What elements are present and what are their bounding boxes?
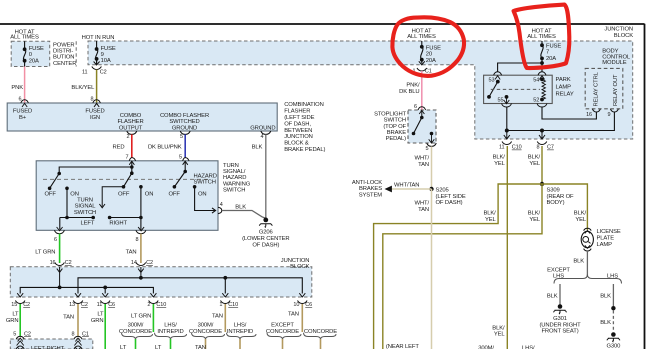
switch linkage dashed line bbox=[43, 178, 210, 180]
svg-text:BLK: BLK bbox=[600, 294, 611, 300]
svg-text:LT GRN: LT GRN bbox=[35, 249, 55, 255]
middle OFF to down arrow bbox=[99, 187, 123, 208]
park lamp relay box bbox=[484, 75, 553, 103]
fuse 20 exit arrow bbox=[419, 61, 425, 65]
turn signal switch label bbox=[74, 198, 96, 216]
hot at all times label (left) bbox=[10, 29, 39, 40]
svg-text:SWITCHED: SWITCHED bbox=[169, 119, 199, 125]
svg-text:GROUND: GROUND bbox=[172, 125, 197, 131]
svg-text:PEDAL): PEDAL) bbox=[386, 136, 407, 142]
svg-text:ON: ON bbox=[198, 191, 207, 197]
svg-text:20A: 20A bbox=[426, 58, 436, 64]
wire S309 right branch to license lamp bbox=[542, 184, 587, 230]
ground G300 bbox=[607, 332, 620, 342]
svg-text:FUSED: FUSED bbox=[85, 109, 104, 115]
svg-text:BLK/: BLK/ bbox=[528, 155, 541, 161]
svg-text:S309: S309 bbox=[547, 187, 560, 193]
turn signal / hazard switch box bbox=[36, 161, 218, 231]
svg-text:(LOWER CENTER: (LOWER CENTER bbox=[242, 236, 289, 242]
svg-text:YEL: YEL bbox=[529, 161, 541, 167]
svg-text:6: 6 bbox=[414, 104, 417, 110]
svg-text:14: 14 bbox=[131, 260, 137, 266]
svg-text:54: 54 bbox=[533, 77, 539, 83]
wire WHT/TAN stoplight to S205 bbox=[431, 146, 433, 189]
BCM pin 16 bump bbox=[592, 109, 600, 112]
svg-text:YEL: YEL bbox=[485, 217, 497, 223]
svg-text:BLK: BLK bbox=[573, 258, 584, 264]
combination flasher location label bbox=[284, 102, 325, 153]
stoplight contact blade bbox=[421, 111, 423, 118]
svg-text:13: 13 bbox=[69, 302, 75, 308]
svg-text:TAN: TAN bbox=[212, 313, 223, 319]
svg-text:BLK/: BLK/ bbox=[492, 325, 505, 331]
svg-text:RELAY CTRL: RELAY CTRL bbox=[594, 71, 600, 106]
svg-text:FUSED: FUSED bbox=[13, 109, 32, 115]
svg-text:SYSTEM: SYSTEM bbox=[359, 192, 383, 198]
svg-text:JUNCTION: JUNCTION bbox=[281, 258, 310, 264]
bus B tan circuit bbox=[78, 278, 302, 294]
svg-text:BLOCK: BLOCK bbox=[614, 33, 633, 39]
svg-text:LT GRN: LT GRN bbox=[131, 313, 151, 319]
hazard ON to pin 4 bbox=[195, 187, 216, 213]
relay linkage dashed bbox=[491, 88, 540, 90]
svg-text:G300: G300 bbox=[606, 343, 621, 349]
svg-text:OF DASH,: OF DASH, bbox=[284, 121, 311, 127]
svg-text:CONCORDE: CONCORDE bbox=[304, 329, 337, 335]
svg-text:C2: C2 bbox=[65, 260, 72, 266]
LEFT output bus bbox=[60, 188, 93, 229]
svg-text:7: 7 bbox=[126, 155, 129, 161]
front lamp box bottom left bbox=[10, 339, 93, 349]
svg-text:CONCORDE: CONCORDE bbox=[119, 329, 152, 335]
switch pin 8 exit bump bottom bbox=[136, 227, 146, 234]
svg-text:GROUND: GROUND bbox=[250, 125, 275, 131]
turn signal hazard warning switch label bbox=[223, 163, 251, 194]
connector 1 C1 bbox=[417, 68, 427, 71]
svg-text:BLOCK &: BLOCK & bbox=[284, 141, 309, 147]
svg-text:SIGNAL: SIGNAL bbox=[75, 204, 97, 210]
svg-text:SWITCH: SWITCH bbox=[384, 118, 406, 124]
svg-text:ON: ON bbox=[145, 191, 154, 197]
svg-text:8: 8 bbox=[136, 237, 139, 243]
svg-text:BRAKE PEDAL): BRAKE PEDAL) bbox=[284, 147, 325, 153]
PDC label right dashed separator bbox=[75, 41, 77, 66]
svg-text:YEL: YEL bbox=[529, 217, 541, 223]
red annotation box right bbox=[514, 5, 570, 68]
svg-text:S205: S205 bbox=[436, 187, 449, 193]
svg-text:IGN: IGN bbox=[90, 115, 100, 121]
svg-text:16: 16 bbox=[586, 112, 592, 118]
junction block (L-shaped dashed blue region) bbox=[88, 41, 633, 139]
node 55/9 junction bbox=[505, 129, 509, 133]
svg-text:53: 53 bbox=[489, 77, 495, 83]
svg-text:POWER: POWER bbox=[53, 42, 74, 48]
stoplight switch label bbox=[374, 111, 406, 142]
svg-text:55: 55 bbox=[498, 98, 504, 104]
svg-text:CENTER: CENTER bbox=[53, 61, 76, 67]
wire relay 52 to BCM 16 bbox=[542, 107, 596, 119]
relay pin 53 bump bbox=[494, 72, 502, 76]
wire BLK to G300 bbox=[612, 284, 614, 306]
svg-text:BUTION: BUTION bbox=[53, 55, 74, 61]
svg-text:300M/: 300M/ bbox=[128, 323, 144, 329]
svg-text:BLK/: BLK/ bbox=[574, 210, 587, 216]
svg-text:YEL: YEL bbox=[494, 332, 506, 338]
brace continuation wires bbox=[135, 339, 137, 349]
svg-text:OUTPUT: OUTPUT bbox=[119, 125, 143, 131]
svg-text:300M/: 300M/ bbox=[198, 323, 214, 329]
splice S205 bbox=[429, 187, 433, 191]
svg-text:FLASHER: FLASHER bbox=[117, 119, 143, 125]
svg-text:PLATE: PLATE bbox=[597, 236, 615, 242]
svg-text:11: 11 bbox=[499, 145, 505, 151]
hot at all times label (right) bbox=[527, 28, 556, 39]
ground G301 bbox=[554, 304, 567, 314]
svg-text:C6: C6 bbox=[305, 302, 312, 308]
svg-text:LHS/: LHS/ bbox=[522, 346, 535, 349]
svg-text:ANTI-LOCK: ANTI-LOCK bbox=[352, 180, 382, 186]
svg-text:LHS: LHS bbox=[607, 274, 618, 280]
svg-text:TAN: TAN bbox=[288, 312, 299, 318]
wire exits to C10/C7 bbox=[504, 131, 510, 140]
svg-text:LEFT: LEFT bbox=[81, 221, 95, 227]
svg-text:(REAR OF: (REAR OF bbox=[547, 194, 575, 200]
svg-text:LHS: LHS bbox=[553, 274, 564, 280]
BCM pin 9 bump bbox=[610, 109, 618, 112]
svg-text:C2: C2 bbox=[146, 260, 153, 266]
svg-text:STOPLIGHT: STOPLIGHT bbox=[374, 111, 406, 117]
stoplight pin 6 bump bbox=[418, 107, 426, 110]
wire LT GRN switch 6 to JB 16 C2 bbox=[59, 234, 61, 263]
svg-text:C6: C6 bbox=[108, 302, 115, 308]
svg-text:5: 5 bbox=[13, 331, 16, 337]
power distribution center box bbox=[11, 41, 50, 66]
svg-text:PNK: PNK bbox=[11, 85, 23, 91]
switch pin 6 exit bump bottom bbox=[54, 230, 64, 233]
svg-text:15: 15 bbox=[11, 302, 17, 308]
svg-text:BLK: BLK bbox=[235, 204, 246, 210]
svg-text:LICENSE: LICENSE bbox=[597, 229, 621, 235]
connector 8 C7 bbox=[537, 142, 547, 145]
svg-text:TAN: TAN bbox=[195, 345, 206, 349]
svg-text:HAZARD: HAZARD bbox=[223, 175, 246, 181]
svg-text:RED: RED bbox=[113, 144, 125, 150]
svg-text:BLOCK: BLOCK bbox=[290, 264, 309, 270]
left pole blade to OFF bbox=[50, 174, 60, 189]
svg-text:YEL: YEL bbox=[575, 217, 587, 223]
relay pin 52 exit bump bbox=[537, 104, 547, 108]
svg-text:G206: G206 bbox=[259, 230, 273, 236]
svg-text:(NEAR LEFT: (NEAR LEFT bbox=[386, 344, 419, 349]
svg-text:7: 7 bbox=[546, 50, 549, 56]
svg-text:4: 4 bbox=[220, 202, 223, 208]
wire TAN 13 C2 to right lamp bbox=[77, 304, 79, 336]
svg-text:DISTRI-: DISTRI- bbox=[53, 49, 73, 55]
svg-text:300M/: 300M/ bbox=[478, 346, 494, 349]
red annotation circle middle bbox=[392, 17, 464, 76]
svg-text:MODULE: MODULE bbox=[602, 60, 627, 66]
wire LT GRN 2 C10 to model split bbox=[152, 304, 154, 332]
svg-text:DK BLU/PNK: DK BLU/PNK bbox=[148, 144, 182, 150]
svg-text:10A: 10A bbox=[101, 58, 111, 64]
svg-text:FRONT SEAT): FRONT SEAT) bbox=[541, 329, 578, 335]
svg-text:OF DASH): OF DASH) bbox=[436, 200, 463, 206]
svg-text:JUNCTION: JUNCTION bbox=[284, 134, 313, 140]
hot at all times label (middle) bbox=[407, 28, 436, 39]
svg-text:RIGHT: RIGHT bbox=[109, 221, 127, 227]
svg-text:LT: LT bbox=[12, 312, 19, 318]
svg-text:C2: C2 bbox=[23, 302, 30, 308]
svg-text:GRN: GRN bbox=[91, 318, 104, 324]
svg-text:DK BLU: DK BLU bbox=[399, 89, 419, 95]
svg-text:PNK/: PNK/ bbox=[406, 83, 420, 89]
wire relay 55 down to node bbox=[506, 107, 508, 131]
splice S309 bbox=[540, 182, 544, 186]
hazard pole blade bbox=[184, 161, 186, 172]
node pin7 branch bbox=[131, 161, 133, 173]
relay coil 54-52 bbox=[540, 78, 544, 82]
page frame top line bbox=[0, 23, 645, 25]
wire BLK to G301 bbox=[559, 284, 561, 305]
svg-text:20A: 20A bbox=[546, 56, 556, 62]
fuse 7 20A (junction block right) bbox=[541, 41, 543, 63]
relay contact 53 to lower-left bbox=[496, 80, 500, 84]
svg-text:LT: LT bbox=[120, 345, 127, 349]
svg-text:LT: LT bbox=[155, 345, 162, 349]
park lamp relay label bbox=[556, 77, 574, 97]
svg-text:LHS/: LHS/ bbox=[234, 323, 247, 329]
fuse 9 10A (junction block) bbox=[95, 41, 97, 64]
svg-text:(UNDER RIGHT: (UNDER RIGHT bbox=[539, 322, 581, 328]
wire LT GRN 11 C6 down bbox=[104, 304, 106, 349]
hazard ON contact bbox=[193, 185, 197, 189]
svg-text:ALL TIMES: ALL TIMES bbox=[10, 34, 39, 40]
node fuse7 junction bbox=[540, 61, 544, 65]
svg-text:CONCORDE: CONCORDE bbox=[266, 329, 299, 335]
wire BLK flasher 4 to G206 bbox=[265, 134, 267, 218]
svg-text:OFF: OFF bbox=[169, 191, 181, 197]
wire TAN 10 C6 to model split bbox=[301, 304, 303, 332]
svg-text:52: 52 bbox=[533, 98, 539, 104]
svg-text:TAN: TAN bbox=[418, 207, 429, 213]
wire TAN 1 C10 to model split bbox=[224, 304, 226, 332]
svg-text:TAN: TAN bbox=[126, 249, 137, 255]
svg-text:BLK/: BLK/ bbox=[483, 210, 496, 216]
wire RED flasher 2 to switch 7 bbox=[131, 134, 133, 157]
RIGHT output bus bbox=[110, 188, 141, 229]
svg-text:TURN: TURN bbox=[77, 198, 93, 204]
svg-text:LAMP: LAMP bbox=[556, 84, 572, 90]
svg-text:11: 11 bbox=[97, 302, 103, 308]
svg-text:20A: 20A bbox=[29, 58, 39, 64]
wire BLK/YEL from 11 C10 straight down bbox=[506, 146, 508, 349]
wire pin7 to left pole bbox=[59, 167, 132, 174]
wire BLK/YEL from 11 C2 to flasher pin 8 bbox=[96, 70, 98, 104]
svg-text:BRAKES: BRAKES bbox=[359, 186, 382, 192]
connector 5 C2 bbox=[13, 331, 31, 337]
svg-text:TAN: TAN bbox=[418, 162, 429, 168]
flasher pin 2 bump bbox=[127, 131, 137, 134]
svg-text:1: 1 bbox=[219, 302, 222, 308]
relay pin 55 exit bump bbox=[502, 104, 512, 108]
connector 14 C2 bbox=[136, 263, 146, 266]
stoplight switch column: wire PNK/DK BLU from 1 C1 bbox=[421, 71, 423, 110]
svg-text:INTREPID: INTREPID bbox=[157, 329, 183, 335]
connector 11 C2 bbox=[92, 67, 102, 70]
svg-text:SIGNAL/: SIGNAL/ bbox=[223, 169, 246, 175]
connector 8 C1 bbox=[72, 331, 89, 337]
svg-text:5: 5 bbox=[426, 146, 429, 152]
wire BLK hazard 4 to G206 bbox=[222, 211, 266, 219]
wire TAN switch 8 to JB 14 C2 bbox=[140, 234, 142, 263]
svg-text:(LEFT SIDE: (LEFT SIDE bbox=[436, 194, 466, 200]
svg-text:C7: C7 bbox=[547, 145, 554, 151]
junction block label bbox=[604, 27, 633, 39]
svg-text:C1: C1 bbox=[82, 331, 89, 337]
connector 16 C2 bbox=[55, 263, 65, 266]
svg-text:YEL: YEL bbox=[494, 161, 506, 167]
svg-text:OF DASH): OF DASH) bbox=[252, 243, 279, 249]
svg-text:WHT/TAN: WHT/TAN bbox=[394, 183, 419, 189]
wire DK BLU/PNK flasher 5 to switch 5 bbox=[184, 134, 186, 157]
middle pole blade to OFF bbox=[124, 173, 132, 187]
svg-text:BLK: BLK bbox=[600, 320, 611, 326]
svg-text:11: 11 bbox=[82, 70, 88, 76]
switch pin 7 bump bbox=[129, 158, 135, 161]
anti-lock brakes system label bbox=[352, 180, 382, 198]
svg-text:2: 2 bbox=[147, 302, 150, 308]
svg-text:BETWEEN: BETWEEN bbox=[284, 128, 312, 134]
stoplight pin 5 contact bbox=[430, 132, 434, 136]
svg-text:ALL TIMES: ALL TIMES bbox=[527, 34, 556, 40]
combination flasher box bbox=[7, 103, 277, 131]
model labels under 2 C10 bbox=[119, 323, 184, 335]
svg-text:WARNING: WARNING bbox=[223, 181, 251, 187]
svg-text:(LEFT SIDE: (LEFT SIDE bbox=[284, 115, 314, 121]
svg-text:HOT IN RUN: HOT IN RUN bbox=[82, 35, 115, 41]
wire fuse7 to relay pins 53/54 bbox=[498, 63, 542, 72]
switch pin 4 bump right edge bbox=[218, 207, 222, 213]
stoplight switch box bbox=[408, 110, 436, 143]
svg-text:LAMP: LAMP bbox=[597, 242, 613, 248]
left pole ON contact bbox=[65, 187, 69, 191]
svg-text:8: 8 bbox=[72, 331, 75, 337]
flasher pin 6 bump bbox=[21, 100, 29, 103]
svg-text:HAZARD: HAZARD bbox=[194, 173, 217, 179]
flasher internal labels bbox=[13, 109, 209, 132]
relay pin 55 contact arrow bbox=[505, 95, 509, 99]
svg-text:TURN: TURN bbox=[223, 163, 239, 169]
wire BLK/YEL from 8 C7 to S309 bbox=[541, 146, 543, 184]
exit connectors row bbox=[15, 301, 307, 304]
svg-text:LHS/: LHS/ bbox=[164, 323, 177, 329]
svg-text:JUNCTION: JUNCTION bbox=[604, 27, 633, 33]
ground G206 bbox=[263, 218, 268, 223]
connector 11 C10 bbox=[502, 142, 512, 145]
svg-text:WHT/: WHT/ bbox=[415, 156, 430, 162]
braces under 2 C10 bbox=[122, 333, 153, 340]
wire BCM 9 to node bbox=[542, 112, 614, 131]
flasher pin 8 bump bbox=[93, 100, 101, 107]
svg-text:FLASHER: FLASHER bbox=[284, 109, 310, 115]
junction block lower box bbox=[10, 267, 312, 297]
svg-text:BRAKE: BRAKE bbox=[387, 130, 406, 136]
wire license lamp to ground split bbox=[586, 251, 588, 277]
svg-text:8: 8 bbox=[537, 145, 540, 151]
svg-text:SWITCH: SWITCH bbox=[194, 180, 216, 186]
svg-text:SWITCH: SWITCH bbox=[223, 188, 245, 194]
svg-text:SWITCH: SWITCH bbox=[74, 210, 96, 216]
svg-text:B+: B+ bbox=[19, 115, 27, 121]
svg-text:GRN: GRN bbox=[6, 318, 19, 324]
svg-text:5: 5 bbox=[179, 155, 182, 161]
svg-text:TAN: TAN bbox=[63, 315, 74, 321]
svg-text:C10: C10 bbox=[156, 302, 166, 308]
model split brace EXCEPT LHS / LHS bbox=[554, 275, 622, 284]
svg-text:BLK: BLK bbox=[547, 294, 558, 300]
wire WHT/TAN S205 down bbox=[431, 189, 433, 349]
fuse 0 20A (PDC) bbox=[23, 41, 25, 66]
svg-text:WHT/: WHT/ bbox=[415, 200, 430, 206]
svg-text:LT: LT bbox=[97, 312, 104, 318]
wire LT GRN 15 C2 to left lamp bbox=[19, 304, 21, 336]
power distribution center label bbox=[53, 42, 76, 67]
svg-text:ON: ON bbox=[70, 191, 79, 197]
svg-text:(TOP OF: (TOP OF bbox=[383, 124, 406, 130]
svg-text:G301: G301 bbox=[553, 316, 567, 322]
svg-text:BLK/YEL: BLK/YEL bbox=[71, 85, 95, 91]
svg-text:OFF: OFF bbox=[118, 191, 130, 197]
svg-text:9: 9 bbox=[608, 112, 611, 118]
svg-text:OFF: OFF bbox=[45, 191, 57, 197]
svg-text:C10: C10 bbox=[512, 145, 522, 151]
svg-text:CONCORDE: CONCORDE bbox=[189, 329, 222, 335]
svg-text:C2: C2 bbox=[100, 70, 107, 76]
svg-text:4: 4 bbox=[261, 134, 264, 140]
relay pin 54 bump bbox=[538, 72, 546, 76]
body control module label bbox=[602, 49, 631, 67]
junction block lower label bbox=[281, 258, 310, 270]
JB entry arrows bbox=[57, 267, 63, 287]
svg-text:BODY): BODY) bbox=[547, 200, 565, 206]
hot in run label bbox=[82, 35, 115, 41]
svg-text:COMBO: COMBO bbox=[120, 113, 142, 119]
flasher pin 5 bump bbox=[180, 131, 190, 134]
wire S309 middle branch (inner) bbox=[383, 184, 542, 349]
node splice on G300 branch bbox=[611, 306, 615, 310]
svg-text:COMBINATION: COMBINATION bbox=[284, 102, 323, 108]
body control module box bbox=[585, 68, 623, 108]
svg-text:BLK: BLK bbox=[252, 144, 263, 150]
svg-text:C2: C2 bbox=[24, 331, 31, 337]
wire dashed BLK to G300 bbox=[612, 311, 614, 333]
svg-text:EXCEPT: EXCEPT bbox=[271, 323, 294, 329]
svg-text:C2: C2 bbox=[81, 302, 88, 308]
svg-text:2: 2 bbox=[127, 134, 130, 140]
svg-text:10: 10 bbox=[293, 302, 299, 308]
flasher pin 4 bump bbox=[261, 131, 271, 134]
stoplight pin 5 exit bump bbox=[427, 143, 437, 146]
svg-text:20: 20 bbox=[426, 52, 433, 58]
svg-text:9: 9 bbox=[101, 52, 104, 58]
right pole ON contact bbox=[139, 185, 143, 189]
bus A green circuit bbox=[20, 287, 153, 293]
svg-text:16: 16 bbox=[50, 260, 56, 266]
svg-text:RELAY OUT: RELAY OUT bbox=[613, 74, 619, 106]
svg-text:RELAY: RELAY bbox=[556, 92, 574, 98]
svg-text:C10: C10 bbox=[228, 302, 238, 308]
JB exit arrows bbox=[17, 293, 305, 297]
